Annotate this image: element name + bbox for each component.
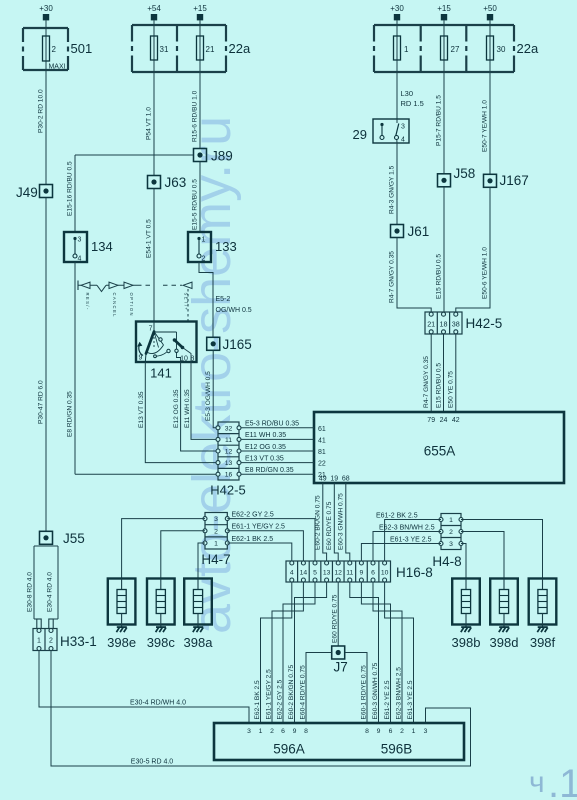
svg-text:E11 WH 0.35: E11 WH 0.35 [184,389,191,428]
svg-text:141: 141 [150,366,172,381]
svg-text:398a: 398a [184,635,214,650]
svg-text:R15-6 RD/BU 1.0: R15-6 RD/BU 1.0 [192,90,199,142]
svg-text:10: 10 [381,570,389,577]
svg-text:J55: J55 [63,531,85,546]
svg-text:68: 68 [342,476,350,483]
svg-text:+15: +15 [437,4,451,13]
svg-text:E62-3 BN/WH 2.5: E62-3 BN/WH 2.5 [379,525,435,532]
svg-text:398b: 398b [452,635,481,650]
svg-text:2: 2 [49,638,53,645]
svg-text:ч: ч [529,766,545,799]
svg-text:+15: +15 [193,4,207,13]
svg-text:E60-3 GN/WH 0.75: E60-3 GN/WH 0.75 [372,662,379,719]
svg-text:1: 1 [202,237,206,244]
svg-text:13: 13 [323,570,331,577]
svg-text:H4-8: H4-8 [432,554,461,569]
svg-text:2: 2 [400,728,404,735]
svg-text:31: 31 [160,45,169,54]
svg-text:R4-7 GN/GY 0.35: R4-7 GN/GY 0.35 [389,251,396,303]
svg-text:24: 24 [440,417,448,424]
svg-text:P30-2 RD 10.0: P30-2 RD 10.0 [38,89,45,133]
svg-text:27: 27 [451,45,460,54]
svg-text:+54: +54 [147,4,161,13]
svg-text:.1: .1 [548,762,577,800]
svg-text:E50-7 YE/WH 1.0: E50-7 YE/WH 1.0 [482,100,489,152]
svg-text:E60 RD/YE 0.75: E60 RD/YE 0.75 [326,501,333,550]
svg-text:21: 21 [427,320,435,329]
svg-text:E60-1 RD/YE 0.75: E60-1 RD/YE 0.75 [361,665,368,720]
svg-text:29: 29 [353,127,367,142]
svg-text:81: 81 [318,449,326,456]
svg-text:4: 4 [401,137,405,144]
svg-text:2: 2 [270,728,274,735]
svg-text:R4-7 GN/GY 0.35: R4-7 GN/GY 0.35 [423,356,430,408]
svg-text:19: 19 [330,476,338,483]
svg-text:2: 2 [202,256,206,263]
svg-text:32: 32 [225,425,233,432]
svg-text:4: 4 [290,570,294,577]
svg-text:4: 4 [78,256,82,263]
svg-text:13: 13 [225,460,233,467]
svg-text:E15 RD/BU 0.5: E15 RD/BU 0.5 [435,363,442,408]
svg-text:J7: J7 [334,660,348,675]
svg-text:12: 12 [334,570,342,577]
svg-text:E54-1 VT 0.5: E54-1 VT 0.5 [146,219,153,258]
svg-text:CANCEL: CANCEL [112,293,117,318]
svg-text:22a: 22a [517,41,539,56]
svg-text:J89: J89 [211,149,233,164]
svg-text:L30: L30 [401,89,414,98]
svg-text:5: 5 [313,570,317,577]
svg-text:9: 9 [377,728,381,735]
svg-text:1: 1 [449,517,453,524]
svg-text:1: 1 [404,45,409,54]
svg-text:J165: J165 [223,337,252,352]
svg-text:E15-16 RD/BU 0.5: E15-16 RD/BU 0.5 [67,161,74,216]
svg-text:1: 1 [412,728,416,735]
svg-text:38: 38 [452,320,460,329]
svg-text:3: 3 [424,728,428,735]
svg-text:E61-1 YE/GY 2.5: E61-1 YE/GY 2.5 [266,669,273,720]
svg-text:E30-5 RD 4.0: E30-5 RD 4.0 [131,759,174,766]
svg-text:E30-4 RD/WH 4.0: E30-4 RD/WH 4.0 [130,700,186,707]
svg-text:8: 8 [304,728,308,735]
svg-text:E30-4 RD 4.0: E30-4 RD 4.0 [47,572,54,612]
svg-text:398d: 398d [490,635,519,650]
svg-text:49: 49 [319,476,327,483]
svg-text:E60-2 BK/GN 0.75: E60-2 BK/GN 0.75 [288,665,295,720]
svg-text:E5-3 OG/WH 0.5: E5-3 OG/WH 0.5 [205,371,212,421]
svg-text:P54 VT 1.0: P54 VT 1.0 [146,107,153,140]
svg-text:6: 6 [281,728,285,735]
svg-text:E60-4 RD/YE 0.75: E60-4 RD/YE 0.75 [300,665,307,720]
svg-text:11: 11 [225,437,232,444]
svg-text:E62-1 BK 2.5: E62-1 BK 2.5 [232,536,274,543]
svg-text:H42-5: H42-5 [466,316,503,331]
svg-text:E11 WH 0.35: E11 WH 0.35 [245,432,286,439]
svg-text:E62-3 BN/WH 2.5: E62-3 BN/WH 2.5 [396,667,403,720]
svg-text:P30-47 RD 6.0: P30-47 RD 6.0 [38,380,45,424]
svg-text:596B: 596B [381,742,413,757]
svg-text:596A: 596A [273,742,305,757]
svg-text:E62-2 GY 2.5: E62-2 GY 2.5 [277,679,284,719]
svg-text:22a: 22a [229,41,251,56]
svg-text:501: 501 [71,41,93,56]
svg-text:398e: 398e [107,635,136,650]
svg-text:42: 42 [452,417,460,424]
svg-text:H42-5: H42-5 [210,483,245,498]
svg-text:+50: +50 [483,4,497,13]
svg-text:E13 VT 0.35: E13 VT 0.35 [245,455,284,462]
svg-text:J167: J167 [500,173,529,188]
svg-text:J61: J61 [408,224,430,239]
svg-text:H16-8: H16-8 [396,565,433,580]
svg-text:E50-6 YE/WH 1.0: E50-6 YE/WH 1.0 [482,247,489,299]
svg-text:E8 RD/GN 0.35: E8 RD/GN 0.35 [67,391,74,437]
svg-text:79: 79 [427,417,435,424]
svg-text:J58: J58 [454,166,476,181]
svg-text:3: 3 [401,124,405,131]
svg-text:41: 41 [318,437,326,444]
svg-text:3: 3 [247,728,251,735]
svg-text:1: 1 [37,638,41,645]
svg-text:E61-3 YE 2.5: E61-3 YE 2.5 [407,680,414,719]
svg-text:1: 1 [214,541,218,548]
svg-text:RES/-: RES/- [85,293,90,311]
svg-text:R4-3 GN/GY 1.5: R4-3 GN/GY 1.5 [389,165,396,214]
svg-text:+30: +30 [39,4,53,13]
svg-text:18: 18 [440,320,448,329]
svg-text:14: 14 [300,570,308,577]
svg-text:RD 1.5: RD 1.5 [401,99,424,108]
svg-text:22: 22 [318,461,326,468]
svg-text:2: 2 [214,528,218,535]
svg-text:E62-2 GY 2.5: E62-2 GY 2.5 [232,512,274,519]
svg-text:11: 11 [346,570,353,577]
svg-text:E60-3 GN/WH 0.75: E60-3 GN/WH 0.75 [337,493,344,550]
svg-text:E60 RD/YE 0.75: E60 RD/YE 0.75 [332,594,339,643]
svg-text:655A: 655A [424,444,456,459]
svg-text:+30: +30 [390,4,404,13]
svg-text:E12 OG 0.35: E12 OG 0.35 [173,389,180,428]
svg-text:J63: J63 [165,175,187,190]
svg-text:16: 16 [225,472,233,479]
svg-text:9: 9 [293,728,297,735]
svg-text:E50 YE 0.75: E50 YE 0.75 [448,371,455,408]
svg-text:1: 1 [259,728,263,735]
svg-text:H4-7: H4-7 [201,552,230,567]
svg-text:61: 61 [318,426,326,433]
svg-text:SET/+: SET/+ [184,293,189,312]
svg-text:E13 VT 0.35: E13 VT 0.35 [138,391,145,428]
svg-text:2: 2 [52,45,57,54]
svg-text:3: 3 [78,237,82,244]
svg-text:3: 3 [449,541,453,548]
svg-text:E12 OG 0.35: E12 OG 0.35 [245,444,286,451]
svg-text:6: 6 [389,728,393,735]
svg-text:9: 9 [360,570,364,577]
svg-text:8: 8 [365,728,369,735]
svg-text:133: 133 [215,239,237,254]
svg-text:2: 2 [449,529,453,536]
svg-text:E62-1 BK 2.5: E62-1 BK 2.5 [254,680,261,720]
svg-text:7: 7 [149,326,153,333]
svg-text:30: 30 [497,45,506,54]
svg-text:E61-1 YE/GY 2.5: E61-1 YE/GY 2.5 [232,524,286,531]
svg-text:6: 6 [371,570,375,577]
svg-text:134: 134 [91,239,113,254]
svg-text:J49: J49 [16,185,38,200]
svg-text:H33-1: H33-1 [60,634,97,649]
svg-text:E8 RD/GN 0.35: E8 RD/GN 0.35 [245,467,294,474]
svg-text:398f: 398f [530,635,556,650]
svg-text:21: 21 [206,45,215,54]
svg-text:E5-3 RD/BU 0.35: E5-3 RD/BU 0.35 [245,421,299,428]
svg-text:E15 RD/BU 0.5: E15 RD/BU 0.5 [436,254,443,299]
svg-text:E61-2 BK 2.5: E61-2 BK 2.5 [376,512,418,519]
svg-text:P15-7 RD/BU 1.5: P15-7 RD/BU 1.5 [436,95,443,146]
svg-text:10: 10 [180,356,188,363]
svg-text:OPTION: OPTION [129,293,134,317]
svg-text:3: 3 [214,516,218,523]
svg-text:MAXI: MAXI [48,64,65,71]
svg-text:E5-2: E5-2 [216,296,231,303]
svg-text:12: 12 [225,449,233,456]
svg-text:OG/WH 0.5: OG/WH 0.5 [216,307,252,314]
svg-text:9: 9 [139,355,143,362]
svg-text:E61-2 YE 2.5: E61-2 YE 2.5 [384,680,391,719]
svg-text:E30-8 RD 4.0: E30-8 RD 4.0 [27,572,34,612]
svg-text:E61-3 YE 2.5: E61-3 YE 2.5 [390,537,432,544]
svg-text:398c: 398c [147,635,176,650]
svg-text:E15-5 RD/BU 0.5: E15-5 RD/BU 0.5 [192,179,199,230]
